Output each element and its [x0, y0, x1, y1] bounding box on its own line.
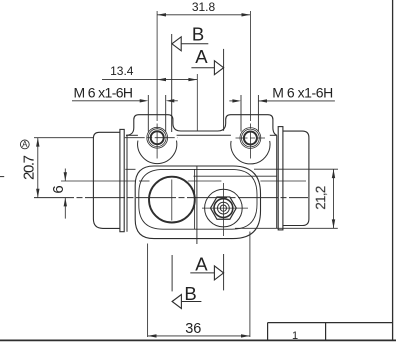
barrel top edge left segment [125, 168, 135, 170]
bleeder boss circle [205, 189, 243, 227]
section marker A top tail [191, 67, 223, 69]
inlet port line segment right [260, 180, 306, 182]
bleeder circle middle [218, 202, 230, 214]
svg-text:A: A [22, 140, 28, 149]
dimension 36 arrow left [148, 334, 157, 337]
svg-text:M 6 x1-6H: M 6 x1-6H [272, 84, 333, 100]
dimension 20.7 arrow bottom [36, 189, 39, 198]
thread extension line left inner [165, 95, 167, 132]
svg-text:A: A [195, 46, 208, 67]
bleeder circle inner [220, 205, 226, 211]
dimension 31.8 arrow right [242, 13, 251, 16]
title block [268, 323, 393, 341]
frame border right [392, 0, 394, 340]
body right edge [276, 135, 278, 228]
right hole vertical centerline / extension [249, 11, 251, 159]
svg-text:B: B [192, 23, 204, 44]
cylinder barrel inner contour [139, 169, 257, 229]
left dust cap [93, 132, 120, 228]
body top edge right segment [270, 134, 277, 136]
dimension 21,2 line [333, 169, 335, 228]
dimension 13.4 arrow left [157, 78, 166, 81]
left thread hole minor circle [151, 131, 164, 144]
lower boss capsule outer contour [135, 166, 260, 239]
svg-text:6: 6 [50, 185, 67, 193]
mounting ears and saddle outline [126, 115, 277, 136]
sheet centering tick left edge [0, 176, 4, 178]
section marker B bottom tail [172, 301, 201, 303]
casting edge vertical second [194, 169, 196, 229]
thread callout left leader [72, 100, 141, 102]
svg-text:A: A [195, 254, 208, 275]
right hole horizontal centerline [236, 137, 266, 139]
bleeder circle outer [214, 199, 233, 218]
dimension 6 upper arrow line [64, 169, 66, 181]
left hole horizontal centerline [34, 137, 94, 139]
svg-text:36: 36 [185, 321, 201, 337]
svg-text:13.4: 13.4 [110, 64, 134, 78]
frame border bottom [0, 339, 396, 341]
thread callout right tail [229, 100, 233, 102]
bleeder horizontal centerline [202, 207, 248, 209]
svg-text:21,2: 21,2 [313, 186, 328, 210]
casting edge vertical [196, 166, 198, 244]
dimension 6 upper arrow [64, 172, 67, 181]
right thread hole chamfer circle [240, 128, 261, 149]
bleeder hexagon [211, 197, 237, 219]
dimension 20.7 arrow top [36, 138, 39, 147]
dimension 21,2 arrow bottom [332, 219, 335, 228]
body left edge [126, 135, 128, 231]
left flange washer [120, 129, 124, 231]
bore vertical centerline [171, 180, 173, 221]
inlet port line segment center [188, 180, 222, 182]
thread callout left tail [174, 100, 178, 102]
bore circle [149, 177, 195, 223]
section line A lower [223, 254, 225, 290]
dimension 31.8 arrow left [157, 13, 166, 16]
thread extension line right inner [240, 95, 242, 132]
section line B upper [171, 34, 173, 132]
body bottom right edge [235, 227, 338, 229]
section marker B bottom triangle [172, 295, 181, 309]
thread callout left arrow b [166, 99, 175, 102]
dimension 31.8 line [157, 14, 250, 16]
section marker A bottom triangle [214, 266, 223, 280]
inlet port line segment capsule [139, 180, 150, 182]
svg-text:20.7: 20.7 [21, 155, 38, 180]
bleeder boss top edge [194, 175, 277, 177]
right ear boss arc [231, 141, 270, 164]
right thread hole major circle [242, 129, 260, 147]
svg-text:1: 1 [292, 330, 298, 342]
body top edge left segment [126, 134, 138, 136]
svg-text:B: B [184, 283, 196, 304]
thread callout right leader [258, 100, 335, 102]
left hole vertical centerline / extension [156, 11, 158, 159]
left thread hole chamfer circle [147, 127, 168, 148]
right thread hole minor circle [244, 132, 257, 145]
section line B lower [171, 255, 173, 291]
inlet vertical centerline [196, 74, 198, 131]
section line A upper [223, 49, 225, 131]
dimension 36 arrow right [241, 334, 250, 337]
section line A middle [223, 183, 225, 236]
dimension 13.4 arrow right [188, 78, 197, 81]
left ear boss arc [138, 141, 177, 164]
dimension 36 line [148, 335, 250, 337]
thread callout right arrow a [232, 99, 241, 102]
thread callout right arrow b [258, 99, 267, 102]
dimension 20.7 line [37, 138, 39, 198]
dimension 21,2 arrow top [332, 169, 335, 178]
section marker B top triangle [172, 37, 181, 51]
datum symbol circle A [20, 140, 29, 149]
dimension 21,2 top extension [254, 168, 338, 170]
right dust cap [283, 131, 309, 225]
left hole horizontal centerline right part [125, 137, 178, 139]
thread extension line left outer [147, 95, 149, 132]
dimension 6 lower arrow line [64, 198, 66, 219]
section marker A bottom tail [190, 272, 223, 274]
svg-text:31.8: 31.8 [192, 0, 216, 14]
main horizontal centerline [34, 197, 308, 199]
svg-text:M 6 x1-6H: M 6 x1-6H [74, 84, 134, 100]
section marker B top tail [172, 43, 208, 45]
dimension 36 extension right [249, 232, 251, 338]
dimension 6 lower arrow [64, 198, 67, 207]
thread callout left arrow a [140, 99, 149, 102]
body top edge middle segment [177, 134, 231, 136]
right flange washer [278, 127, 283, 230]
section marker A top triangle [214, 61, 223, 75]
dimension 36 extension left [147, 244, 149, 338]
thread extension line right outer [257, 95, 259, 132]
left thread hole major circle [148, 129, 166, 147]
inlet port line segment left [61, 180, 136, 182]
dimension 13.4 line [102, 79, 197, 81]
